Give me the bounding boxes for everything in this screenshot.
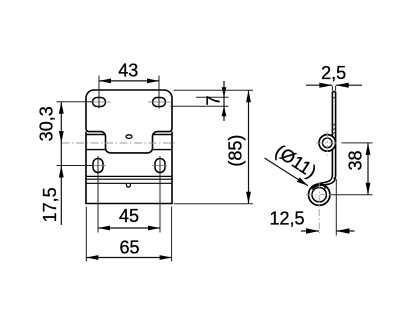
curl inner circle bbox=[312, 188, 326, 202]
svg-text:12,5: 12,5 bbox=[269, 208, 304, 228]
curl centerline cross (side view) bbox=[306, 182, 333, 236]
dimension 12,5 arrows bbox=[306, 228, 350, 233]
dimension 17,5 text bbox=[40, 187, 60, 222]
svg-text:45: 45 bbox=[119, 206, 139, 226]
dimension 38 extension lines bbox=[331, 143, 373, 195]
centerline cross top-left hole bbox=[88, 101, 111, 103]
svg-text:30,3: 30,3 bbox=[37, 106, 57, 141]
dimension 12,5 line bbox=[301, 230, 355, 232]
slotted hole top-left bbox=[93, 98, 106, 107]
dimension 43 text bbox=[118, 61, 138, 81]
dimension 2,5 line bbox=[306, 84, 362, 86]
dimension (85) extension lines bbox=[174, 90, 254, 204]
dimension 38 text bbox=[346, 150, 366, 170]
dimension 30,3 extension lines bbox=[57, 102, 94, 166]
svg-text:2,5: 2,5 bbox=[321, 63, 346, 83]
dimension 17,5 line bbox=[60, 143, 62, 225]
dimension 30,3 arrows bbox=[59, 102, 64, 143]
dimension 2,5 arrows bbox=[319, 83, 348, 88]
dimension 38 line bbox=[367, 143, 369, 195]
svg-text:65: 65 bbox=[119, 237, 139, 257]
dimension 30,3 line bbox=[60, 102, 62, 143]
dimension 12,5 extension line bbox=[335, 179, 337, 236]
curled edge neck (side view) bbox=[312, 175, 336, 190]
dimension 45 extension lines bbox=[98, 156, 160, 233]
svg-text:43: 43 bbox=[118, 61, 138, 81]
dimension 2,5 extension lines bbox=[332, 86, 335, 91]
dimension 43 extension lines bbox=[99, 76, 159, 109]
horizontal centerline through knuckle (front view) bbox=[62, 142, 177, 144]
dimension 45 text bbox=[119, 206, 139, 226]
dimension 65 arrows bbox=[86, 255, 171, 260]
svg-text:38: 38 bbox=[346, 150, 366, 170]
dimension 45 line bbox=[98, 227, 160, 229]
section hatching on side plate bbox=[332, 97, 335, 179]
dimension 65 line bbox=[86, 257, 171, 259]
dimension (85) arrows bbox=[246, 90, 251, 204]
centerline cross top-right hole bbox=[148, 101, 171, 103]
small hole on bend (front view) bbox=[126, 184, 130, 187]
curl outer circle (Ø11 roll) bbox=[309, 184, 330, 205]
bottom leaf plate (front view) bbox=[86, 132, 172, 204]
dimension 12,5 text bbox=[269, 208, 304, 228]
centerline cross bottom-left slot bbox=[91, 165, 106, 167]
svg-text:17,5: 17,5 bbox=[40, 187, 60, 222]
centerline cross bottom-right slot bbox=[152, 165, 167, 167]
knuckle barrel (front view) bbox=[86, 135, 172, 150]
knuckle barrel (side view) bbox=[319, 135, 336, 152]
dimension 7 text bbox=[204, 95, 224, 105]
dimension 38 arrows bbox=[366, 143, 371, 195]
slotted hole bottom-right bbox=[155, 159, 165, 173]
pin hole (side view) bbox=[323, 138, 333, 148]
curl material tip edge bbox=[322, 185, 325, 189]
dimension 2,5 text bbox=[321, 63, 346, 83]
leader line for (Ø11) bbox=[265, 158, 309, 186]
slotted hole top-right bbox=[153, 98, 166, 107]
svg-text:7: 7 bbox=[204, 95, 224, 105]
dimension 17,5 arrow bbox=[59, 166, 64, 178]
dimension 7 line bbox=[223, 81, 225, 121]
slotted hole bottom-left bbox=[93, 159, 103, 173]
dimension 45 arrows bbox=[98, 226, 160, 231]
svg-text:(85): (85) bbox=[226, 135, 246, 167]
dimension 65 extension lines bbox=[86, 207, 171, 262]
dimension (85) text bbox=[226, 135, 246, 167]
knuckle centerline cross (side view) bbox=[316, 132, 339, 156]
dimension 7 extension lines bbox=[171, 97, 229, 106]
side view upper leaf plate bbox=[332, 92, 335, 176]
top leaf plate outline (front view) bbox=[86, 90, 172, 153]
dimension 43 line bbox=[99, 80, 159, 82]
dimension 65 text bbox=[119, 237, 139, 257]
dimension 43 arrows bbox=[99, 79, 159, 84]
svg-text:(Ø11): (Ø11) bbox=[272, 141, 320, 182]
dimension 30,3 text bbox=[37, 106, 57, 141]
hinge pin end (front view) bbox=[126, 135, 132, 139]
dimension 7 arrows bbox=[222, 87, 227, 116]
leader arrow for (Ø11) bbox=[297, 177, 308, 185]
dimension (85) line bbox=[248, 90, 250, 204]
dimension (Ø11) text bbox=[272, 141, 320, 182]
